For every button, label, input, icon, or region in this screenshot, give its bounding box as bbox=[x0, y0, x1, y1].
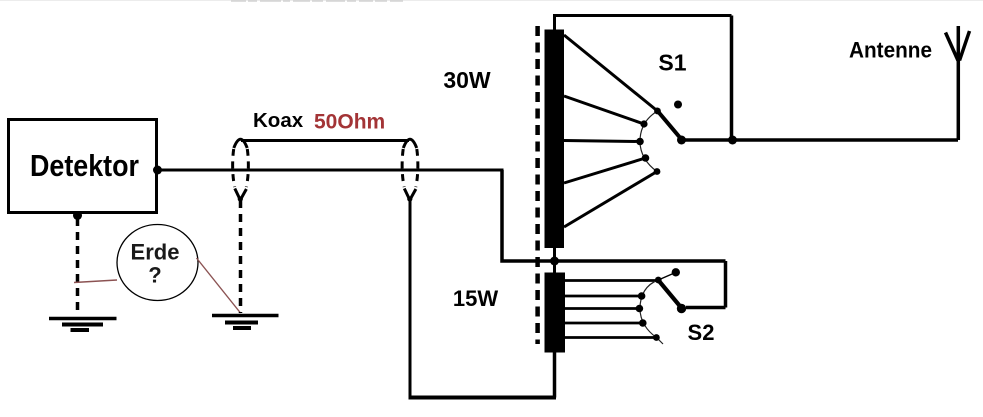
winding 30W bbox=[545, 30, 565, 249]
svg-text:?: ? bbox=[148, 263, 161, 288]
wire detector output bbox=[158, 169, 504, 172]
wire 15W tap 4 bbox=[565, 322, 643, 325]
node detector ground terminal bbox=[73, 211, 82, 220]
wire coax shield to earth (dashed) bbox=[239, 200, 243, 313]
switch S2 contact 4 bbox=[639, 319, 647, 327]
wire 30W tap 3 bbox=[564, 141, 640, 142]
switch S1 contact arc bbox=[640, 111, 658, 172]
node winding junction bbox=[550, 257, 559, 266]
svg-text:50Ohm: 50Ohm bbox=[314, 111, 385, 134]
switch S1 contact 1 bbox=[654, 108, 661, 115]
detector box U1 bbox=[9, 120, 157, 213]
svg-text:Koax: Koax bbox=[253, 109, 304, 132]
transformer core (dashed) bbox=[535, 26, 540, 344]
wire 15W tap 3 bbox=[565, 307, 640, 310]
svg-text:S1: S1 bbox=[658, 50, 686, 76]
cropped title text remnant bbox=[231, 0, 403, 2]
wire 15W winding bottom stub bbox=[553, 352, 557, 398]
wire 15W tap 1 bbox=[565, 279, 658, 282]
wire top loop vertical bbox=[730, 16, 734, 141]
wire S1 common to antenna bbox=[682, 138, 959, 142]
wire detector ground lead (dashed) bbox=[76, 218, 80, 314]
switch S1 wiper lever bbox=[656, 109, 683, 141]
switch S1 contact 3 bbox=[636, 138, 644, 146]
switch S2 contact 2 bbox=[638, 292, 646, 300]
node antenna wire junction bbox=[728, 136, 737, 145]
wire 30W tap 1 bbox=[564, 35, 658, 111]
wire 30W tap 4 bbox=[564, 158, 646, 183]
wire S2 loop horizontal bbox=[686, 306, 726, 310]
switch S2 wiper lever bbox=[659, 281, 682, 308]
switch S2 spare position dot bbox=[672, 268, 680, 276]
wire S2 pivot link bbox=[658, 273, 675, 281]
node S1 common bbox=[677, 136, 686, 145]
switch S1 contact 5 bbox=[654, 168, 661, 175]
switch S1 contact 2 bbox=[640, 120, 647, 127]
wire between windings bbox=[553, 248, 556, 273]
antenna symbol bbox=[946, 26, 970, 140]
node detector output bbox=[153, 166, 162, 175]
wire 30W top stub bbox=[553, 16, 556, 31]
wire S2 loop vertical bbox=[724, 261, 728, 308]
wire annotation leader to coax earth (red) bbox=[197, 258, 241, 313]
wire 30W tap 2 bbox=[564, 96, 644, 124]
wire 15W tap 5 bbox=[565, 336, 657, 339]
switch S2 contact 5 bbox=[653, 334, 660, 341]
wire top loop horizontal bbox=[553, 14, 732, 17]
svg-text:Detektor: Detektor bbox=[30, 148, 139, 183]
switch S2 contact 3 bbox=[636, 305, 644, 313]
svg-text:30W: 30W bbox=[443, 67, 491, 93]
svg-text:Erde: Erde bbox=[131, 240, 180, 265]
coax shield left arrow tip bbox=[238, 196, 243, 201]
svg-text:Antenne: Antenne bbox=[849, 38, 932, 63]
switch S1 spare position dot bbox=[674, 101, 682, 109]
switch S2 contact 1 bbox=[655, 277, 662, 284]
wire main feed bend bbox=[502, 170, 726, 261]
wire annotation leader to detector earth (red) bbox=[74, 280, 117, 283]
node Erde? annotation circle bbox=[117, 225, 198, 301]
coax shield right arrow tip bbox=[407, 196, 412, 201]
wire bottom return rail bbox=[409, 396, 557, 400]
wire right shield down lead bbox=[409, 200, 412, 398]
wire 15W tap 2 bbox=[565, 295, 642, 298]
wire 30W tap 5 bbox=[564, 172, 657, 228]
coax shield ring left bbox=[233, 139, 249, 200]
switch S2 contact arc bbox=[640, 280, 663, 344]
coax shield ring right bbox=[402, 139, 418, 200]
ground coax earth bbox=[212, 316, 279, 329]
wire coax shield top link bbox=[241, 139, 409, 142]
switch S1 contact 4 bbox=[642, 154, 650, 162]
svg-text:S2: S2 bbox=[688, 320, 715, 345]
node S2 common bbox=[677, 304, 686, 313]
cropped page top edge bbox=[0, 0, 983, 2]
svg-text:15W: 15W bbox=[453, 286, 498, 311]
winding 15W bbox=[545, 273, 566, 353]
ground detector earth bbox=[49, 319, 117, 331]
